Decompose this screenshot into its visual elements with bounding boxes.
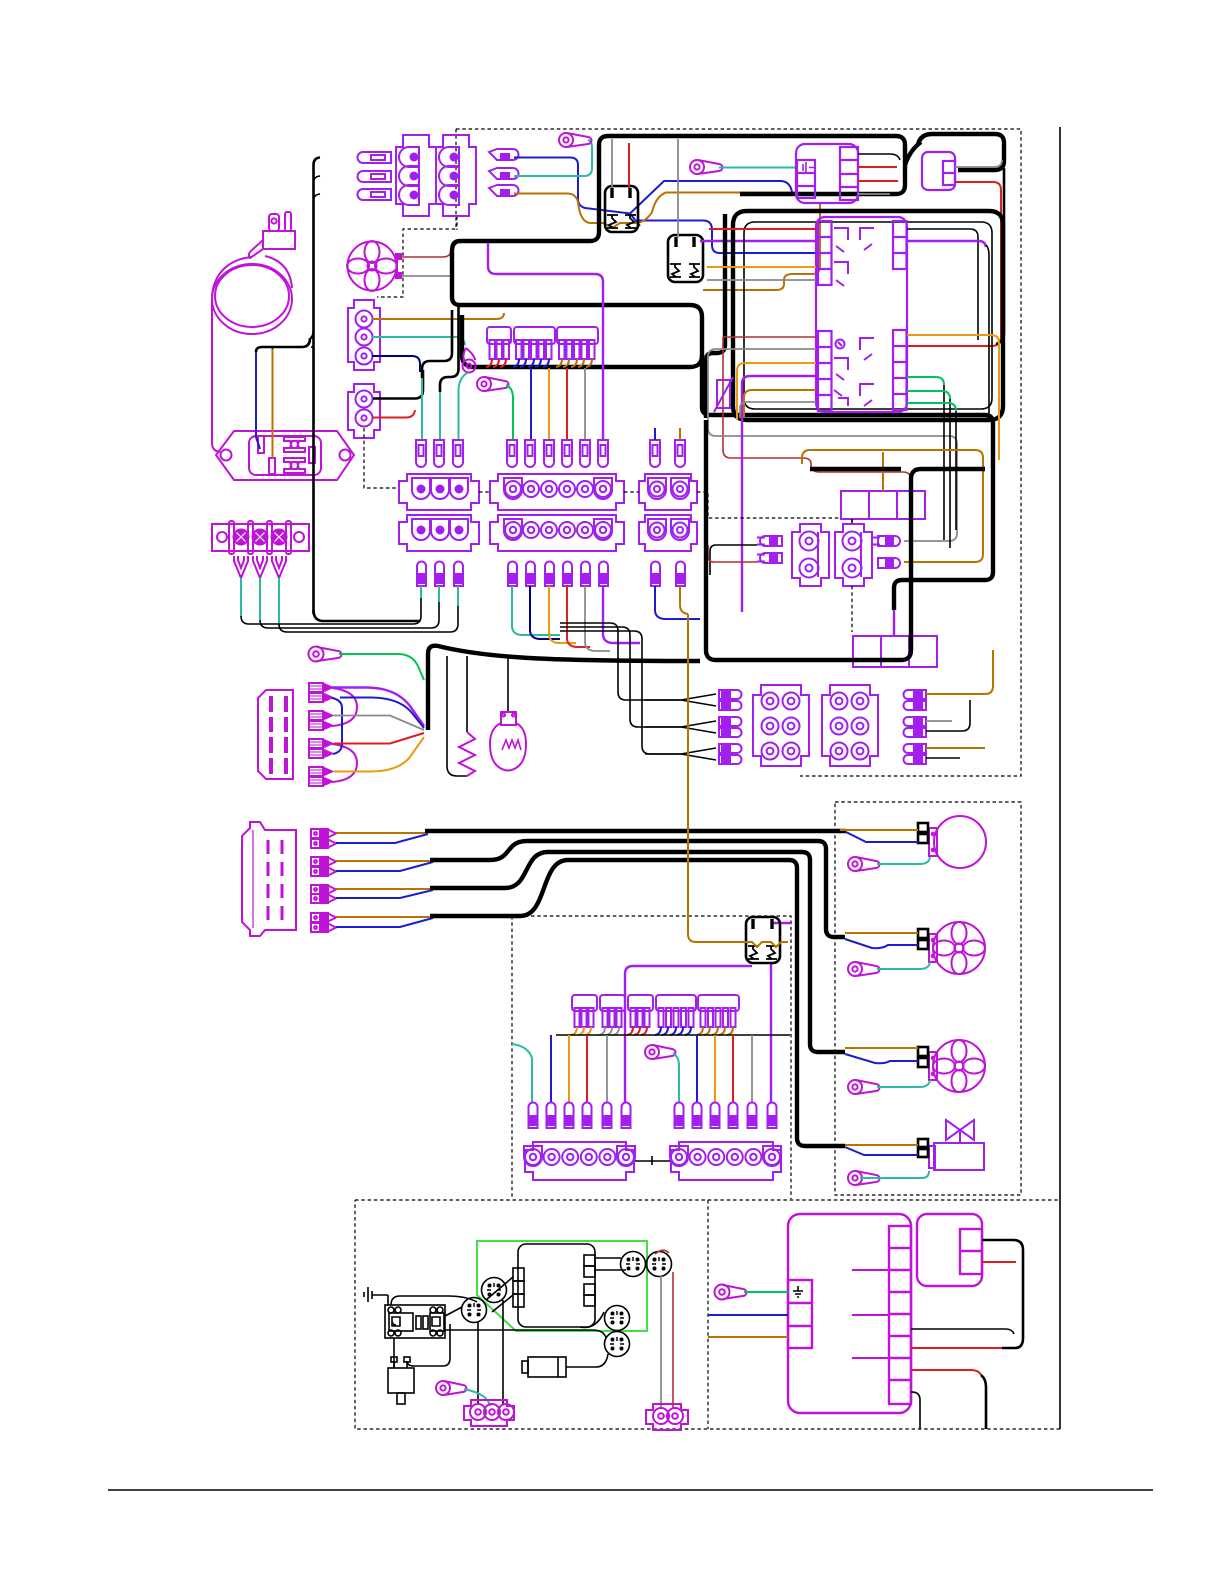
red drop wire [586,1035,588,1102]
cord wire to inlet [212,299,220,452]
blue drops FB2 [513,359,549,367]
orange wire SV [845,1144,918,1146]
teal wire ring R8 [464,1389,490,1406]
connector CN7 (6-pin) [822,685,878,766]
bullet pair LB3 [719,744,742,764]
defrost relay K3 [746,917,780,963]
orange wire timer L-low [737,363,816,420]
gray wire from fan [402,275,450,277]
dashed enclosure: bottom section [355,1200,1060,1429]
purple jumper loop L2 [332,744,357,782]
purple wire SE1a fanout [332,688,424,727]
spade SB1 [507,440,517,467]
round connector RC1 [482,1278,507,1303]
orange drops FB8 [697,1027,733,1035]
spade SC2 [675,440,685,467]
wire teal to inlet [313,348,315,448]
harness trunk 4 [430,860,845,1146]
crimp terminal SE4b [309,777,332,786]
bullet DB8 [693,1103,702,1129]
bullet BP2 [757,553,782,563]
fuse bank FB1 [487,327,511,359]
ring terminal R6 [645,1045,676,1059]
spade SC1 [650,440,660,467]
navy wire below BB2 [530,586,560,639]
blue wire SP4 [336,918,433,927]
orange wire from BP4 [802,450,983,562]
protector connector CP2 [835,524,872,586]
green wire timer R-low5 [907,403,956,411]
fuse bank FB3 [557,327,598,359]
gray wire to relay K2 [677,139,679,237]
ring terminal R2 [690,160,723,174]
connector strip CS2 [670,1142,781,1180]
teal wire below BB1 [512,586,560,635]
crimp terminal SE3b [309,749,332,758]
wires module to RC3 [595,1258,626,1270]
blue wire SP2 [336,862,433,871]
red wire CN4-2 [373,410,415,418]
dashed link CP2 to TS2 [851,586,853,632]
spade SB6 [598,440,608,467]
fuse bank FB6 [628,995,653,1027]
blue wire ML3 [845,1054,918,1063]
dashed link: connector2 to fan box [456,216,458,230]
green wire ring R7 [744,1291,788,1293]
orange drops FB3 [556,359,592,367]
ring terminal R7 [715,1285,747,1300]
bullet BA2 [435,562,444,587]
gray wire below BB5 [585,586,610,651]
protector connector CP1 [792,524,829,586]
orange wire ML1 [840,829,918,831]
orange wire timer L4 [707,266,816,268]
control board PCB1 [385,1305,445,1338]
wire gray fuse to spade [584,368,586,440]
purple wire timer to defrost [742,376,816,612]
orange stub SC2 [679,428,681,440]
connector CN1 (3-pin) [396,135,436,216]
blue wire SP3 [336,890,433,898]
trunk elbow to bundle [314,610,421,621]
orange wire timer L-low2 [744,390,816,418]
black wire RB2b [926,700,970,731]
purple wire K3 bottom [625,966,752,1102]
teal wire from fork F3 [278,578,280,624]
ring terminal R8 [436,1381,467,1395]
round connector RC5 [605,1306,630,1331]
dashed sub-link: fan enclosure [377,129,456,297]
spade SB5 [580,440,590,467]
teal drop to spade SA1 [421,378,423,440]
orange drop wire r [714,1035,716,1102]
black drop g1 [943,385,945,540]
bullet BB3 [545,562,554,587]
round connector RC4 [647,1252,672,1277]
dashed enclosure: evaporator motors section [835,802,1021,1195]
bullet DB4 [583,1103,592,1129]
spade terminal S1 [358,152,392,163]
spade SB3 [544,440,554,467]
black wire ground to PCB [387,1295,389,1305]
connector CN2 (3-pin) [436,135,476,216]
teal wire ring R3 down [459,373,468,440]
connector block CB6 (2-pos row2) [639,515,697,551]
ring terminal RM2 [848,962,880,976]
blue drops FB7 [655,1027,691,1035]
motor ML2 (fan) [929,922,985,974]
bullet BP4 [878,558,900,568]
round connector RC3 [621,1252,646,1277]
black fork to LB1 [645,694,716,706]
thermistor RT1 [714,377,733,412]
compressor unit box [733,211,1003,420]
connector CN3 (3-pin round) [348,300,380,370]
gray wire RB2 [926,720,952,722]
fan motor M1 [347,241,401,291]
timer contact glyphs [834,228,874,406]
terminal SV-a [918,1139,928,1147]
footer rule [108,1489,1153,1491]
orange wire ML3 [845,1047,918,1049]
ring terminal R3 (upward) [463,348,476,373]
orange wire RB1 [926,650,993,694]
purple wire K3 to bullet [770,963,772,1102]
black links forks to bullets [241,598,458,632]
crimp terminal SE4a [309,767,332,776]
teal wire from fork F1 [240,578,242,616]
fuse bank FB4 [572,995,597,1027]
teal wire left [512,1044,532,1102]
bullet pair LB2 [719,717,742,737]
ring terminal R1 [559,133,592,147]
wire module to RC5 [580,1312,604,1327]
red wire SE3 fanout [334,733,424,744]
black elbow to spade teal B [440,307,459,392]
connector block CB2 (6-pos row1) [490,474,624,510]
crimp terminal SE2b [309,721,332,730]
spade terminal S3 [358,189,392,200]
harness trunk 1 [425,829,846,833]
wire red fuse to spade [566,368,568,440]
blue wire SP1 [336,834,428,843]
thick trunk: right continuation [702,355,993,610]
bullet BB5 [581,562,590,587]
ground glyph in BM1 [793,1286,803,1297]
module MD1 [513,1244,595,1327]
black trunk fan-out to inlet [256,338,310,352]
dark dashed link to TS1 [697,492,841,518]
purple wire timer R2 long [907,241,986,247]
power cord coil [212,256,292,334]
defrost bus [556,1034,790,1036]
fuse bank FB7 [656,995,696,1027]
fork terminal F2 [253,556,267,578]
orange wire below BB3 [549,586,576,643]
orange wire into BM1 [708,1336,788,1338]
gray wire timer loop to bullet [708,349,957,541]
motor ML3 (fan) [929,1040,985,1092]
bullet DB10 [729,1103,738,1129]
black wire timer R1 [907,229,978,340]
red wire CN8 [982,1261,1016,1263]
crimp terminal SE2a [309,711,332,720]
wire orange fuse to spade [548,368,550,440]
black fork to LB3 [645,748,716,760]
teal wire CN3-2 [372,337,465,345]
wire orange to inlet [272,349,274,458]
red wire to BM1 [911,1347,1002,1349]
connector CC1 [464,1400,514,1426]
teal wire ring R2 to module [719,167,797,169]
teal wire RM3 [877,1080,930,1087]
solid page fold line right [1059,127,1061,1429]
black wire BM1 r3 [911,1392,920,1429]
red drops FB1 [486,359,506,367]
purple stub to TS2 [893,610,895,637]
black wire BM1 r1 [911,1329,1014,1334]
trunk hug left of compressor [706,214,725,418]
crimp terminal SE3a [309,739,332,748]
gray wire to relay K1 [611,139,613,188]
main left trunk wire [310,158,320,615]
orange drop to TS1 [882,452,884,491]
red wire module out3 [858,180,898,182]
black drop g3 [955,411,957,530]
orange wire SP1 [336,832,425,834]
spade pair SP4 [311,913,336,922]
thick wire y469 [810,467,901,471]
crimp terminal SE1b [309,693,332,702]
black wire CN4-1 [373,370,423,399]
fork terminal F1 [234,556,248,578]
black wire to BP1 [710,545,757,575]
orange drop wire [568,1035,570,1102]
blue stub SC1 [654,428,656,440]
gray wire SE2 fanout [334,716,424,731]
solenoid valve SV1 [929,1120,984,1170]
ring terminal RM1 [848,857,880,871]
connector block CB4 (3-pos row2) [399,515,479,551]
bullet BP1 [757,536,782,546]
red wire RC4 down [672,1272,674,1408]
bullet BB1 [508,562,517,587]
thick loop around power module [740,136,905,194]
connector block CB1 (3-pos row1) [399,474,479,510]
bullet terminal B2 [489,168,519,179]
bullet pair RB2 [904,717,926,737]
bullet BB4 [563,562,572,587]
teal wire RM2 [877,962,930,969]
thick trunk: upper bend [452,136,775,251]
spade SA1 [416,440,426,467]
bullet BB6 [599,562,608,587]
power module PM1 [796,144,858,203]
spade pair SP2 [311,857,336,866]
gray drops FB5 [599,1027,619,1035]
blue wire ML2 [845,939,918,948]
blue wire bullet B1 to relay K1 [514,158,792,214]
green wire ring R5 [339,654,424,680]
dashed divider bottom section [707,1200,709,1429]
black fork feed 3 [560,631,681,754]
wire RC2 down to CC1 [477,1322,479,1404]
bullet pair RB3 [904,744,926,764]
thick loop around connector CN5 [918,134,1004,170]
transformer TR1 [388,1357,414,1404]
red wire timer L1 [709,228,816,230]
purple jumper loop L1 [332,688,357,726]
orange wire module to relay K2 [703,203,820,290]
spade SB4 [562,440,572,467]
fuse bank FB8 [698,995,739,1027]
wire RC1 down to CC1 [502,1300,504,1404]
bullet BC2 [676,562,685,587]
black wire to bulb [507,656,509,711]
bullet terminal B3 [489,185,519,196]
gray drop wire r [751,1035,753,1102]
connector CC2 [646,1404,688,1430]
purple wire below BB6 [603,586,640,643]
orange wire below BC2 [680,586,688,614]
blue wire into BM1 [708,1314,788,1316]
blue wire ML1 [846,832,918,842]
orange drops FB4 [571,1027,591,1035]
fork terminal F3 [272,556,286,578]
relay K1 (PTC start relay) [605,186,638,232]
wire transformer to RC2 [407,1324,450,1366]
teal wire ring R6 [673,1053,679,1102]
red wire from fan [402,251,451,257]
orange wire bullet B3 via relay K1 [514,193,797,229]
bullet BC1 [651,562,660,587]
teal wires below bullets A [421,586,458,606]
dashed junction links row1 [479,491,639,493]
terminal ML2-a [918,929,928,938]
motor ML1 body [929,816,986,868]
blue wire CN3-3 [372,356,420,372]
ring terminal R5 [309,647,342,662]
thick loop wire bridge [905,142,921,165]
diag wires to module [486,1277,513,1312]
black wire RB3b [926,757,960,759]
terminal SV-b [918,1149,928,1157]
red drops FB6 [627,1027,647,1035]
blue wire relay K1 lower [630,214,816,254]
black wire module out1 [858,154,900,160]
black wire from purple end [986,245,989,420]
orange wire into K3 [688,614,788,947]
wire PCB loop top [391,1296,477,1305]
sensor SN1 [522,1357,566,1377]
red wire below BB4 [567,586,590,647]
bullet DB11 [748,1103,757,1129]
appliance inlet J1 [216,431,354,480]
bullet DB2 [547,1103,556,1129]
dashed link CN4 to middle connector [364,428,399,488]
relay K2 (overload) [668,235,703,282]
teal wire bullet B2 to ring R1 [514,140,592,176]
teal wire RM4 [860,1171,929,1178]
thick trunk U mid-right [706,420,985,660]
gray wire RC4 down [660,1276,662,1408]
wire PCB to transformer [393,1338,395,1368]
orange wire CN3-1 [372,313,504,319]
connector CN6 (6-pin) [753,685,809,766]
blue drop wire r [696,1035,698,1102]
round connector RC2 [462,1298,487,1323]
blue wire below BC1 [655,586,700,619]
red wire BM1 r2 [911,1370,981,1375]
crimp terminal SE1a [309,683,332,692]
orange wire SP2 [336,860,430,862]
connector CN4 (2-pin round) [348,384,380,438]
connector block CB3 (2-pos row1) [639,474,697,510]
blue jumper loop [332,698,342,754]
compressor inner wire loop [744,222,992,409]
red wire to relay K1 [628,143,630,188]
bullet DB9 [711,1103,720,1129]
spade terminal S2 [358,171,392,182]
teal drop to spade SA2 [439,392,441,440]
bullet BA3 [454,562,463,587]
black loop wire for resistor [447,656,467,776]
round connector RC6 [605,1332,630,1357]
edge connector EC1 [258,690,293,779]
edge connector EC2 [242,822,296,936]
wire blue fuse to spade [530,368,532,440]
gray wire CN5 [955,160,1002,167]
ring terminal R4 [477,377,509,391]
red wire to BP2 [708,545,757,562]
green wire timer R-low4 [907,391,950,399]
bullet terminal B1 [489,149,519,160]
terminal ML1-a [918,823,928,832]
fuse bank FB2 [514,327,555,359]
terminal strip TS2 [853,636,937,667]
connector block CB5 (6-pos row2) [490,515,624,551]
red wire module out2 [858,166,897,168]
bullet BB2 [526,562,535,587]
spade SA2 [434,440,444,467]
timer module BM1 [788,1214,911,1413]
blue drop wire [550,1035,552,1102]
harness trunk 3 [430,852,845,1052]
wire purple long vertical [488,243,603,440]
bullet DB5 [603,1103,612,1129]
purple wire K3 pin right [772,922,792,924]
gray drop wire [606,1035,608,1102]
ground symbol G1 [364,1287,388,1302]
wire sensor to RC6 [566,1354,608,1367]
orange wire timer R-low1 [907,335,999,460]
gray wire timer L5 [707,279,816,281]
teal wire from fork F2 [259,578,261,620]
orange wire RB3 [926,747,985,749]
dashed enclosure: main top section [456,129,1021,776]
dashed enclosure: defrost section [512,916,791,1199]
black fork feed 1 [560,623,681,700]
black wire CN8 loop [982,1240,1023,1348]
gray wire module out4 [858,193,890,195]
green enclosure outline [477,1241,647,1331]
orange wire ML2 [845,932,918,934]
wire PCB to RC2 diag [445,1307,462,1316]
red drop wire r [732,1035,734,1102]
thick trunk: loop rectangle [452,251,702,367]
spade SB2 [525,440,535,467]
bullet pair RB1 [904,690,926,710]
